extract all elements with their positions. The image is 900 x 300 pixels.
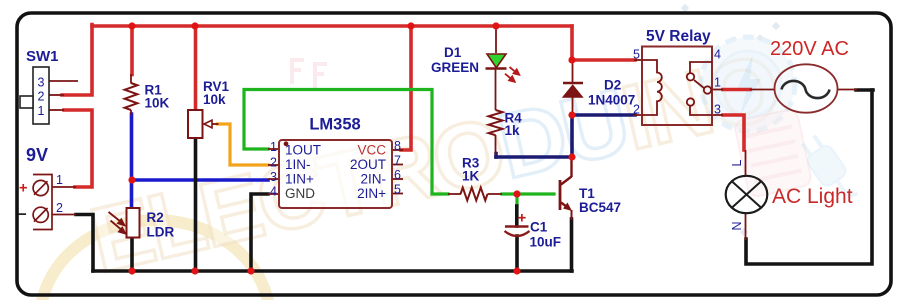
svg-text:+: + [19, 181, 27, 197]
svg-text:2OUT: 2OUT [350, 157, 386, 172]
svg-text:C1: C1 [530, 220, 548, 235]
svg-text:D2: D2 [604, 78, 621, 93]
svg-text:4: 4 [270, 185, 277, 199]
svg-text:D1: D1 [444, 45, 462, 60]
svg-text:1: 1 [270, 140, 277, 154]
svg-text:1IN-: 1IN- [285, 157, 311, 172]
svg-text:9V: 9V [26, 145, 48, 165]
svg-text:1N4007: 1N4007 [588, 93, 635, 108]
svg-text:2: 2 [270, 156, 277, 170]
svg-text:LM358: LM358 [309, 116, 360, 134]
svg-text:1: 1 [38, 104, 45, 118]
svg-text:N: N [730, 221, 744, 230]
svg-text:6: 6 [394, 168, 401, 182]
svg-text:1IN+: 1IN+ [285, 172, 314, 187]
svg-text:LDR: LDR [147, 225, 175, 240]
svg-text:BC547: BC547 [579, 200, 621, 215]
svg-text:VCC: VCC [357, 143, 386, 158]
svg-text:10k: 10k [203, 92, 226, 107]
svg-text:+: + [518, 210, 527, 227]
svg-text:3: 3 [38, 76, 45, 90]
svg-text:10uF: 10uF [530, 235, 562, 250]
svg-text:2IN-: 2IN- [360, 172, 386, 187]
svg-text:GREEN: GREEN [431, 60, 479, 75]
svg-text:R2: R2 [147, 210, 164, 225]
svg-text:L: L [730, 159, 744, 166]
svg-text:5V Relay: 5V Relay [646, 28, 711, 45]
svg-text:4: 4 [714, 48, 721, 62]
svg-text:5: 5 [394, 183, 401, 197]
svg-text:10K: 10K [145, 96, 170, 111]
svg-text:1OUT: 1OUT [285, 143, 321, 158]
svg-text:2: 2 [633, 103, 640, 117]
svg-text:1: 1 [714, 76, 721, 90]
svg-text:T1: T1 [579, 186, 595, 201]
svg-text:AC Light: AC Light [772, 185, 853, 208]
svg-text:3: 3 [270, 170, 277, 184]
svg-text:2IN+: 2IN+ [357, 186, 386, 201]
svg-text:1: 1 [56, 173, 63, 187]
svg-text:5: 5 [633, 48, 640, 62]
svg-text:SW1: SW1 [26, 48, 59, 65]
svg-text:1k: 1k [505, 123, 521, 138]
svg-text:7: 7 [394, 154, 401, 168]
svg-text:8: 8 [394, 139, 401, 153]
svg-text:GND: GND [285, 186, 315, 201]
svg-text:2: 2 [38, 90, 45, 104]
svg-text:1K: 1K [462, 169, 480, 184]
svg-text:220V AC: 220V AC [770, 38, 849, 60]
svg-text:3: 3 [714, 103, 721, 117]
svg-text:−: − [18, 206, 27, 223]
svg-text:2: 2 [56, 201, 63, 215]
